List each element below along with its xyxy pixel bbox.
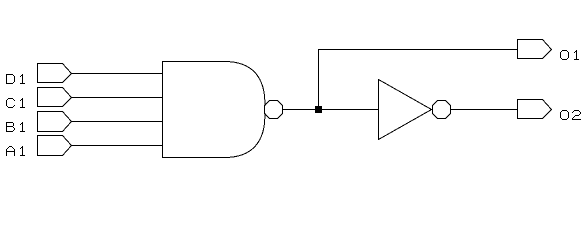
output tag O2 <box>518 100 552 119</box>
wire B1 to NAND pin 3 <box>72 121 163 123</box>
nand gate U1 body <box>163 62 225 158</box>
wire C1 to NAND pin 2 <box>72 97 163 99</box>
wire A1 to NAND pin 4 <box>72 145 163 147</box>
wire inverter to O2 tag <box>451 109 518 111</box>
wire NAND output to inverter input <box>283 109 379 111</box>
wire D1 to NAND pin 1 <box>72 73 163 75</box>
output tag O1 <box>518 40 552 59</box>
inverter output bubble <box>433 101 451 119</box>
label O2 <box>560 110 581 120</box>
wire junction up to O1 branch <box>318 49 320 110</box>
wire to O1 tag <box>318 49 518 51</box>
input tag A1 <box>38 136 72 156</box>
input tag C1 <box>38 88 72 107</box>
label D1 <box>6 74 25 84</box>
input tag D1 <box>38 64 72 83</box>
label B1 <box>6 122 25 132</box>
label A1 <box>6 146 25 156</box>
inverter U2 <box>379 80 432 140</box>
label O1 <box>560 50 579 60</box>
input tag B1 <box>38 112 72 132</box>
nand gate output bubble <box>265 101 283 119</box>
junction node <box>315 106 322 113</box>
label C1 <box>6 98 25 108</box>
